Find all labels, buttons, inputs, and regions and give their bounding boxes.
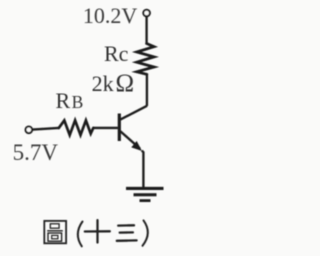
svg-text:B: B — [72, 92, 84, 112]
svg-text:R: R — [56, 88, 71, 113]
caption: close parenthesis — [143, 220, 148, 245]
svg-text:10.2V: 10.2V — [83, 3, 137, 28]
wire: emitter to ground — [142, 151, 144, 188]
wire: RB to base — [93, 127, 118, 129]
resistor RB (horizontal zigzag) — [59, 120, 94, 135]
svg-text:5.7V: 5.7V — [13, 140, 59, 165]
input terminal node (left) — [26, 127, 33, 134]
resistor Rc (vertical zigzag) — [137, 44, 154, 75]
transistor Q1 base bar — [118, 114, 121, 142]
wire: Rc bottom to collector elbow — [146, 74, 148, 106]
svg-text:Ω: Ω — [116, 70, 135, 97]
svg-text:2k: 2k — [92, 71, 114, 96]
transistor Q1 emitter lead — [120, 131, 140, 148]
wire: supply terminal to Rc top — [145, 17, 147, 44]
terminal node (supply) — [143, 10, 150, 17]
caption: open parenthesis — [78, 222, 83, 247]
caption: character 十 — [85, 220, 110, 242]
caption: character 圖 — [44, 221, 66, 243]
wire: input terminal to RB — [33, 128, 59, 130]
caption: character 三 — [117, 225, 137, 241]
transistor Q1 collector lead — [120, 106, 147, 120]
emitter arrowhead — [131, 141, 142, 151]
svg-text:Rc: Rc — [104, 41, 129, 66]
ground — [126, 187, 164, 190]
